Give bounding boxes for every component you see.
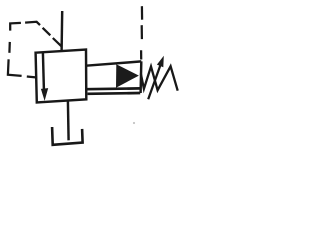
tank stem	[67, 101, 70, 140]
vent dash 2	[141, 25, 143, 39]
pilot dash horizontal	[25, 22, 40, 25]
pilot dash left vertical 1	[8, 42, 11, 53]
spring channel right edge	[139, 61, 142, 93]
pilot dashed corner bottom	[8, 59, 22, 76]
pilot dash diagonal 1	[43, 28, 51, 36]
spring zigzag	[141, 66, 178, 90]
spring channel top line	[86, 61, 141, 65]
pressure port line	[60, 11, 63, 51]
valve body square	[36, 50, 87, 103]
tank symbol	[52, 127, 83, 145]
flow arrowhead	[41, 88, 48, 101]
drain line	[88, 92, 141, 96]
pilot dashed corner top	[10, 23, 21, 31]
spring channel bottom line	[86, 87, 141, 90]
flow arrow line	[43, 52, 44, 89]
flow triangle	[116, 64, 139, 88]
vent dash 3	[140, 50, 142, 59]
speck	[133, 122, 135, 124]
pilot dash diagonal 2	[53, 38, 62, 46]
adjust arrow shaft	[148, 64, 161, 100]
pressure relief valve schematic	[0, 0, 183, 152]
adjust arrowhead	[157, 56, 164, 67]
pilot dash to valve	[27, 77, 37, 78]
vent dash 1	[141, 6, 143, 20]
